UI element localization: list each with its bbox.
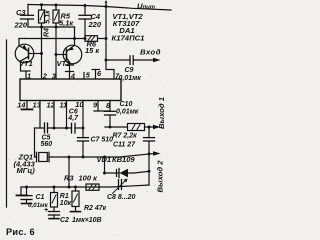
node rail-VT2e [73, 37, 76, 40]
label C9 [119, 67, 142, 82]
node R7-C11 [148, 126, 151, 129]
node L1-V1 [68, 156, 71, 159]
wire C5 row [35, 127, 84, 129]
label R5 [59, 12, 74, 28]
node row-pin11 [65, 127, 68, 130]
node C9 tee [105, 59, 108, 62]
wire ZQ1 drop [34, 128, 36, 157]
svg-text:+: + [44, 207, 48, 214]
node rail-R1 [53, 186, 56, 189]
node row-pin10 [82, 127, 85, 130]
node R6-right [105, 37, 108, 40]
svg-text:4,7: 4,7 [67, 115, 79, 122]
svg-text:2: 2 [42, 71, 48, 80]
svg-text:Выход 1: Выход 1 [157, 97, 166, 129]
node rail-R5 [55, 4, 58, 7]
resistor R6 [85, 36, 106, 42]
svg-text:VT2: VT2 [57, 59, 72, 68]
svg-text:6: 6 [97, 69, 102, 78]
pin 5 stub [83, 73, 85, 80]
svg-text:0,01мк: 0,01мк [119, 75, 142, 82]
node rail-V1 [68, 186, 71, 189]
pin 13 wire [39, 101, 41, 129]
svg-text:1мк×10В: 1мк×10В [72, 217, 102, 224]
ground rail [21, 185, 149, 187]
svg-text:МГц): МГц) [17, 166, 36, 175]
svg-text:0,01мк: 0,01мк [116, 109, 139, 116]
node rail-C4 [84, 4, 87, 7]
svg-text:R1: R1 [60, 193, 69, 200]
capacitor C5 [45, 123, 48, 133]
svg-text:R3: R3 [64, 174, 74, 183]
wire R4 to pin 2 [41, 27, 43, 79]
svg-text:10: 10 [75, 100, 84, 109]
svg-text:4: 4 [70, 71, 75, 80]
wire R5 to pin 3 [55, 27, 57, 79]
svg-text:12: 12 [47, 100, 56, 109]
resistor R1 [51, 187, 58, 212]
resistor R2 [71, 187, 81, 212]
label R1 [60, 193, 72, 207]
svg-text:5: 5 [86, 71, 91, 80]
emitter rail [19, 38, 85, 40]
svg-text:14: 14 [17, 100, 25, 109]
resistor R3 [86, 184, 99, 190]
node VT2 base [55, 53, 58, 56]
wire V3 [148, 154, 150, 185]
svg-text:11: 11 [60, 100, 68, 109]
svg-text:R2 47к: R2 47к [84, 205, 107, 212]
crystal ZQ1 [35, 152, 53, 161]
svg-text:13: 13 [33, 100, 42, 109]
pin 11 wire [66, 101, 68, 129]
varicap VD1 [105, 169, 150, 178]
svg-text:220: 220 [88, 20, 102, 29]
svg-text:VD1: VD1 [97, 155, 112, 164]
wire C3/R4/R5 bottoms [28, 26, 75, 28]
wire V1 [68, 157, 70, 187]
svg-text:5,1к: 5,1к [45, 10, 52, 24]
scan noise [3, 6, 168, 236]
resistor R7 [105, 124, 153, 131]
node rail-R2 [74, 186, 77, 189]
label C10 [116, 101, 139, 116]
node VD1-right [148, 170, 151, 173]
op-amp DA1 box [20, 79, 121, 101]
transistor VT2 [56, 39, 82, 80]
node rail-R4 [40, 3, 43, 6]
svg-text:Выход 2: Выход 2 [156, 160, 165, 193]
label C2 [60, 217, 102, 224]
svg-text:С2: С2 [60, 217, 69, 224]
trimmer C8 [113, 179, 128, 194]
svg-text:С10: С10 [120, 101, 133, 108]
node W1-R5 [55, 26, 58, 29]
node W1-R4 [40, 26, 43, 29]
svg-text:Uпит: Uпит [137, 2, 155, 11]
label VD1 KB109 [97, 155, 136, 164]
capacitor C10 [105, 111, 116, 127]
capacitor C11 [144, 127, 155, 154]
svg-text:С7 510: С7 510 [91, 137, 114, 144]
node rail-drop [105, 5, 108, 8]
pin 6 stub [92, 70, 100, 80]
output 2 arrow [153, 151, 161, 156]
label C5 [41, 135, 53, 149]
wire V2 [104, 157, 106, 173]
node L1-V2 [103, 156, 106, 159]
svg-text:10к: 10к [60, 200, 72, 207]
wire W1 drop [74, 27, 76, 39]
svg-text:С11 27: С11 27 [113, 141, 136, 148]
wire L1 to output 2 [52, 154, 153, 157]
pin 14 ground [22, 101, 33, 110]
label ZQ1 [14, 153, 36, 175]
svg-text:1: 1 [27, 71, 31, 80]
label R6 [85, 39, 100, 55]
label parts list [112, 12, 145, 43]
pin 10 wire [82, 101, 84, 129]
capacitor C4 [79, 6, 91, 39]
output 1 arrow [153, 125, 161, 130]
svg-text:Вход: Вход [140, 47, 161, 56]
pin 8 wire [109, 101, 111, 112]
capacitor C7 [78, 128, 89, 157]
transistor VT1 [15, 39, 41, 80]
supply rail [28, 5, 171, 11]
capacitor C3 [21, 5, 34, 28]
svg-text:R4: R4 [44, 28, 51, 37]
node C10-R7 [109, 126, 112, 129]
svg-text:560: 560 [41, 141, 53, 148]
svg-text:R7 2,2к: R7 2,2к [113, 132, 138, 139]
node rail-C4-R6 [84, 37, 87, 40]
node rail-C1 [25, 186, 28, 189]
svg-text:220: 220 [14, 20, 28, 29]
resistor R5 [53, 5, 59, 27]
svg-text:5,1к: 5,1к [59, 18, 74, 27]
Uпит arrow [105, 0, 108, 7]
svg-text:15 к: 15 к [85, 46, 100, 55]
pin 12 wire [53, 101, 55, 129]
label C6 [67, 109, 79, 122]
svg-text:КВ109: КВ109 [112, 155, 135, 164]
label C4 [88, 12, 102, 29]
svg-text:VT1: VT1 [19, 59, 33, 68]
label C1 [28, 194, 49, 209]
ground symbol left [17, 187, 28, 195]
left column rule [6, 40, 8, 207]
pin 9 stub [94, 101, 110, 112]
svg-text:Рис. 6: Рис. 6 [6, 227, 35, 237]
resistor R4 [39, 5, 45, 27]
supply drop wire to pin 7 [106, 7, 114, 80]
svg-text:9: 9 [93, 100, 98, 109]
svg-text:100 к: 100 к [79, 173, 99, 182]
node row-pin12 [53, 127, 56, 130]
label R3 [64, 173, 98, 182]
label C3 [14, 8, 28, 29]
node L1-C7 [82, 156, 85, 159]
svg-text:С9: С9 [125, 67, 134, 74]
node VD1-left [103, 172, 106, 175]
capacitor C1 [21, 187, 32, 204]
svg-text:С1: С1 [36, 194, 45, 201]
node VT1 base [40, 52, 43, 55]
input C9 [106, 56, 161, 65]
svg-text:С8 8...20: С8 8...20 [107, 194, 136, 201]
svg-text:К174ПС1: К174ПС1 [112, 34, 145, 43]
node L1-C11 [148, 153, 151, 156]
capacitor C2 [49, 212, 60, 219]
capacitor C6 [72, 123, 76, 133]
